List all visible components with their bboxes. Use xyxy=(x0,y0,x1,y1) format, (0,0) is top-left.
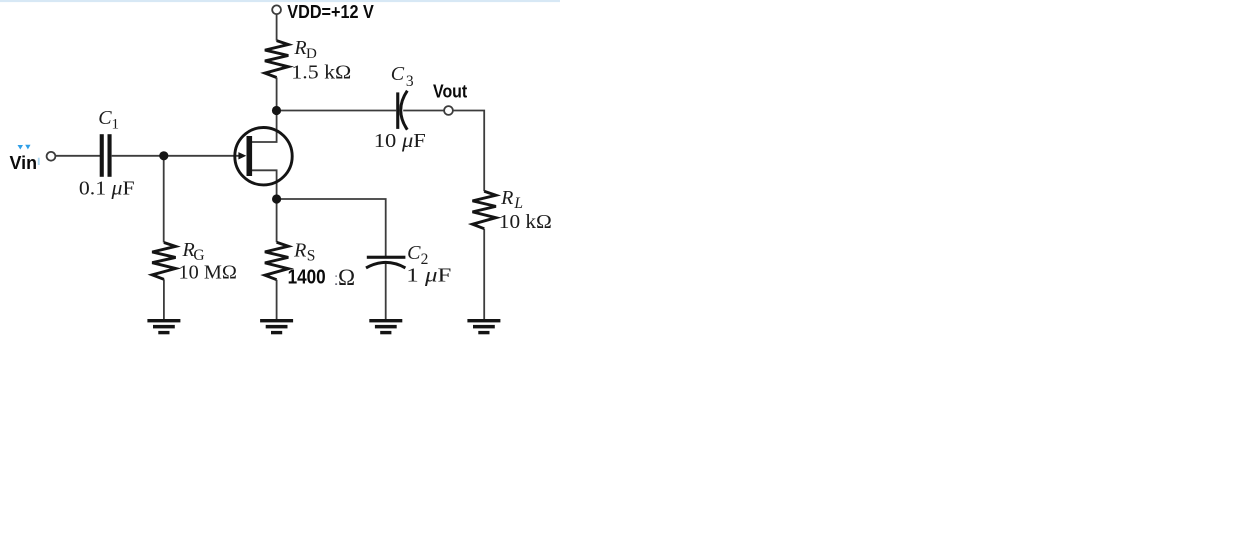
svg-text:1400: 1400 xyxy=(288,267,326,289)
svg-text:0.1 μF: 0.1 μF xyxy=(79,177,135,199)
svg-text:10 μF: 10 μF xyxy=(374,130,426,152)
svg-text:Ω: Ω xyxy=(338,265,355,290)
svg-text:VDD=+12 V: VDD=+12 V xyxy=(287,2,374,22)
svg-text:Vin: Vin xyxy=(10,153,38,173)
svg-text:1 μF: 1 μF xyxy=(406,264,451,286)
svg-text:10 kΩ: 10 kΩ xyxy=(499,211,552,233)
svg-text:Vout: Vout xyxy=(433,82,467,102)
svg-text:1.5 kΩ: 1.5 kΩ xyxy=(291,61,351,83)
svg-text:10 MΩ: 10 MΩ xyxy=(179,262,237,284)
